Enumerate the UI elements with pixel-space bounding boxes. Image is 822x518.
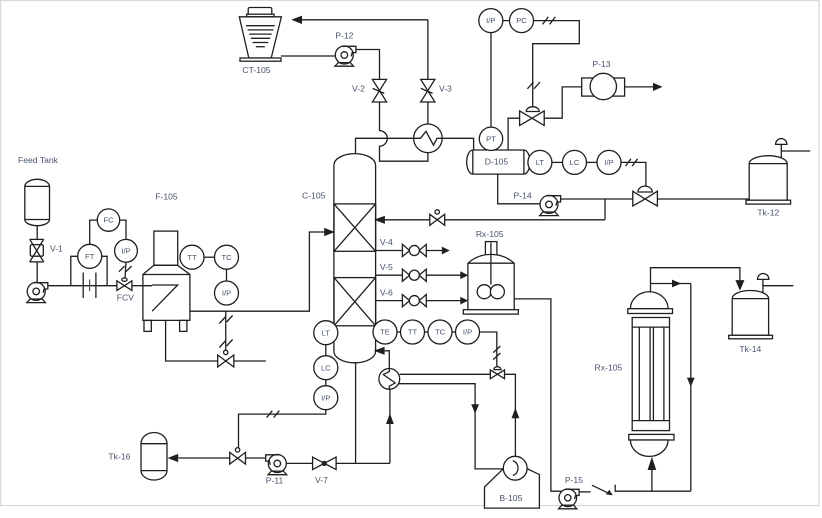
wire furnace outlet riser feed to column — [152, 232, 325, 311]
wire V-4 draw line — [376, 250, 403, 252]
column C-105 — [334, 154, 376, 363]
svg-text:V-1: V-1 — [50, 244, 63, 254]
valve Tk-12 level control — [633, 186, 658, 206]
tank Tk-14 — [729, 273, 794, 338]
svg-text:F-105: F-105 — [155, 192, 178, 202]
wire feed pump to FCV — [48, 285, 117, 287]
instrument LT drum — [528, 150, 552, 174]
instrument I/P top — [479, 9, 503, 33]
wire reboiler to B-105 — [399, 384, 504, 469]
svg-text:P-15: P-15 — [565, 475, 583, 485]
valve V-7 ball valve — [313, 457, 337, 470]
svg-text:I/P: I/P — [486, 16, 495, 25]
wire reactor top to Tk-14 — [651, 268, 740, 292]
pump P-12 — [335, 46, 356, 66]
wire P-12 discharge to V-2 — [356, 50, 380, 80]
svg-text:I/P: I/P — [121, 246, 130, 255]
svg-text:V-4: V-4 — [380, 237, 393, 247]
wire P-14 discharge header — [561, 198, 633, 200]
wire P-13 discharge — [625, 86, 654, 88]
svg-text:I/P: I/P — [463, 328, 472, 337]
svg-text:I/P: I/P — [222, 289, 231, 298]
cooling tower CT-105 — [239, 8, 281, 62]
wire FCV to furnace — [132, 285, 152, 287]
svg-text:TC: TC — [221, 253, 232, 262]
wire CT-105 suction to P-12 — [281, 55, 336, 57]
instrument PC — [510, 9, 534, 33]
check switch symbol — [592, 485, 615, 496]
wire pressure valve to P-13 — [544, 87, 582, 118]
furnace F-105 — [143, 231, 190, 331]
svg-text:Rx-105: Rx-105 — [476, 229, 504, 239]
instrument TT furnace — [180, 245, 204, 269]
instrument I/P reboiler — [456, 320, 480, 344]
reboiler heat exchanger — [379, 369, 400, 390]
valve pressure control — [520, 107, 545, 126]
svg-text:Tk-12: Tk-12 — [757, 207, 779, 217]
wire signal I/P to Tk-12 valve — [621, 162, 646, 186]
svg-text:PT: PT — [486, 134, 496, 143]
wire FT bracket — [71, 256, 78, 285]
valve hot oil control — [490, 367, 504, 379]
reactor Rx-105 stirred tank — [463, 242, 518, 315]
svg-text:V-3: V-3 — [439, 84, 452, 94]
wire PT to I/P top — [490, 33, 492, 128]
instrument FT — [78, 244, 102, 268]
valve V-1 — [30, 239, 44, 262]
wire V-5 line to reactor — [376, 274, 403, 276]
wire reflux branch down — [604, 199, 606, 220]
svg-text:V-7: V-7 — [315, 475, 328, 485]
wire signal I/P to Tk-16 valve — [239, 410, 326, 448]
valve V-5 — [402, 269, 426, 281]
wire valve to Tk-12 — [657, 198, 749, 200]
wire FC to I/P — [120, 220, 126, 239]
wire D-105 top to pressure valve — [508, 118, 519, 150]
svg-text:PC: PC — [516, 16, 527, 25]
svg-text:Tk-14: Tk-14 — [739, 344, 761, 354]
svg-text:TC: TC — [435, 328, 446, 337]
svg-text:V-5: V-5 — [380, 262, 393, 272]
svg-text:TE: TE — [380, 328, 390, 337]
wire recycle branch — [651, 283, 691, 285]
wire V-1 to feed pump — [36, 262, 38, 289]
wire LC-I/P — [325, 380, 327, 386]
valve V-3 — [421, 79, 435, 102]
valve V-4 — [402, 244, 426, 256]
pump P-14 — [540, 195, 561, 215]
svg-text:FCV: FCV — [117, 292, 134, 302]
instrument TE — [373, 320, 397, 344]
wire signal PC to pressure valve — [533, 21, 580, 108]
svg-text:C-105: C-105 — [302, 190, 326, 200]
wire LT-LC — [325, 345, 327, 356]
wire P-11 discharge to LC valve — [246, 457, 266, 459]
wire column bottoms downpipe — [355, 362, 357, 463]
feed tank vessel — [25, 179, 50, 225]
svg-text:FT: FT — [85, 252, 95, 261]
instrument I/P column — [314, 386, 338, 410]
svg-text:Feed Tank: Feed Tank — [18, 155, 59, 165]
wire bottoms header — [336, 462, 390, 464]
instrument LC column — [314, 356, 338, 380]
wire reactor outlet to P-15 — [514, 299, 562, 491]
wire furnace drain — [166, 320, 218, 361]
valve furnace drain — [218, 350, 234, 367]
svg-text:P-14: P-14 — [514, 191, 532, 201]
svg-text:Rx-105: Rx-105 — [595, 362, 623, 372]
wire FT to FC — [90, 220, 98, 244]
instrument FC — [97, 209, 119, 231]
svg-text:TT: TT — [187, 253, 197, 262]
instrument LC drum — [563, 150, 587, 174]
svg-text:FC: FC — [103, 216, 114, 225]
wire valve to B-105 riser — [505, 374, 516, 456]
pump feed — [27, 282, 48, 302]
wire overhead return line to tower — [302, 19, 428, 21]
svg-text:LC: LC — [570, 158, 580, 167]
drum D-105 — [467, 150, 530, 174]
instrument TC column — [428, 320, 452, 344]
pump P-11 — [266, 455, 287, 475]
wire reflux line into column — [384, 219, 605, 221]
wire furnace drain branch with breaks — [225, 311, 227, 350]
valve Tk-16 level control valve — [230, 448, 246, 464]
flow element orifice bars — [82, 273, 84, 299]
tank Tk-16 — [141, 433, 167, 480]
svg-text:I/P: I/P — [321, 393, 330, 402]
valve reflux hand valve — [430, 210, 445, 226]
wire riser to reboiler — [389, 389, 391, 463]
svg-text:P-11: P-11 — [266, 475, 284, 485]
svg-text:I/P: I/P — [604, 158, 613, 167]
wire reboiler to hot oil valve — [400, 373, 491, 375]
svg-text:V-2: V-2 — [352, 84, 365, 94]
svg-text:LC: LC — [321, 363, 331, 372]
wire P-15 discharge — [579, 491, 591, 493]
pump P-13 inline — [582, 73, 625, 99]
svg-text:LT: LT — [536, 158, 545, 167]
instrument I/P feed — [115, 239, 138, 262]
wire reboiler return to column — [385, 351, 390, 369]
instrument I/P drum — [597, 150, 621, 174]
boiler B-105 — [485, 456, 540, 508]
wire switch to recycle junction — [615, 490, 691, 492]
svg-text:CT-105: CT-105 — [242, 65, 270, 75]
svg-text:V-6: V-6 — [380, 288, 393, 298]
svg-text:LT: LT — [322, 328, 331, 337]
valve V-2 — [372, 79, 386, 102]
instrument LT column — [314, 321, 338, 345]
svg-text:P-13: P-13 — [592, 59, 610, 69]
svg-text:D-105: D-105 — [485, 156, 509, 166]
heat exchanger condenser — [414, 124, 443, 153]
svg-text:TT: TT — [408, 328, 418, 337]
pump P-15 — [559, 489, 580, 509]
wire inlet to reactor bottom — [651, 470, 653, 491]
wire tank to V-1 — [36, 226, 38, 240]
wire recycle downcomer — [690, 284, 692, 492]
instrument TT column — [401, 320, 425, 344]
wire P-11 suction from V-7 — [287, 462, 313, 464]
svg-text:Tk-16: Tk-16 — [108, 452, 130, 462]
wire V-2 down with hop over overhead line, to condenser bottom — [380, 102, 428, 161]
wire column overhead through condenser to D-105 — [356, 131, 474, 155]
valve V-6 — [402, 295, 426, 307]
wire V-6 line to reactor — [376, 300, 403, 302]
instrument TC furnace — [215, 245, 239, 269]
svg-text:P-12: P-12 — [335, 31, 353, 41]
wire signal I/P to FCV — [125, 262, 126, 278]
tank Tk-12 — [746, 138, 810, 204]
svg-text:B-105: B-105 — [499, 493, 522, 503]
reactor Rx-105 shell and tube — [628, 292, 674, 457]
instrument PT — [479, 127, 502, 150]
valve FCV — [117, 278, 132, 291]
instrument I/P furnace — [215, 281, 239, 305]
wire D-105 bottom to P-14 — [498, 174, 541, 204]
wire signal I/P to hot oil valve — [480, 332, 497, 366]
